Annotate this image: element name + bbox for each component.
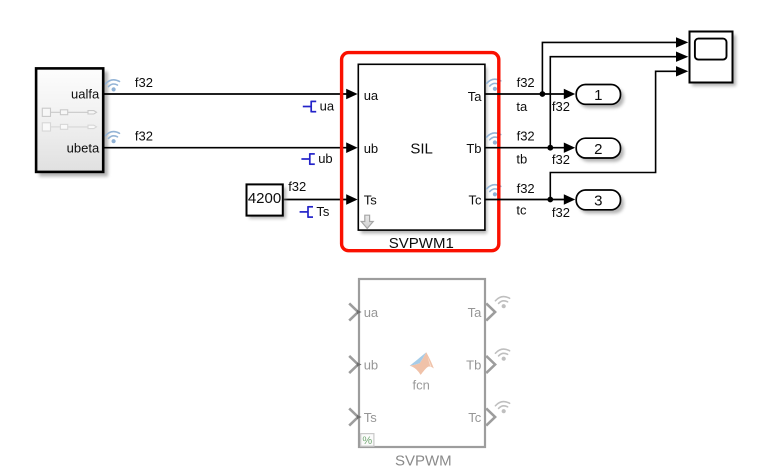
wire 4200 -> Ts: [284, 199, 347, 201]
junction dot ta: [540, 91, 546, 97]
arrowhead into scope 1: [676, 37, 688, 47]
faded input port chevron Ts: [349, 408, 358, 425]
MATLAB membrane logo (faded): [410, 352, 434, 375]
arrowhead into ua: [346, 89, 357, 100]
wire ualfa -> ua: [104, 93, 347, 95]
svg-text:ub: ub: [364, 141, 378, 156]
wire Ta -> outport 1: [486, 93, 565, 95]
faded input port chevron ub: [349, 356, 358, 373]
svg-text:f32: f32: [552, 152, 570, 167]
constant block 4200: [247, 184, 283, 215]
source block preview icons row 1: [42, 108, 96, 116]
outport 1: [576, 85, 620, 105]
svg-text:2: 2: [594, 141, 602, 158]
svg-text:Ts: Ts: [316, 204, 330, 219]
wire branch tb -> scope input 2: [550, 57, 676, 148]
svg-text:SIL: SIL: [410, 141, 433, 158]
arrowhead into scope 3: [676, 66, 688, 76]
svg-text:%: %: [362, 435, 372, 447]
svg-text:ta: ta: [516, 99, 528, 114]
junction dot tc: [547, 197, 553, 203]
svg-text:ubeta: ubeta: [67, 141, 100, 156]
test point ua: [303, 101, 316, 113]
arrowhead into ub: [346, 142, 357, 153]
svg-text:tc: tc: [516, 202, 527, 217]
faded input port chevron ua: [349, 303, 358, 320]
test point ub: [301, 153, 314, 165]
logging badge Tc: [486, 184, 502, 198]
junction dot tb: [547, 145, 553, 151]
svg-text:fcn: fcn: [413, 377, 430, 392]
logging badge ubeta: [105, 130, 121, 144]
source subsystem block shadow: [39, 72, 108, 177]
red SIL highlight border: [342, 53, 499, 251]
scope block: [690, 32, 733, 83]
faded output port chevron Tb: [486, 356, 495, 373]
source subsystem block (ualfa/ubeta): [36, 68, 103, 171]
svg-text:Ta: Ta: [468, 305, 483, 320]
scope block shadow: [692, 35, 736, 86]
arrowhead into outport 2: [564, 143, 575, 153]
svg-text:Ta: Ta: [468, 89, 483, 104]
svg-text:ua: ua: [320, 99, 335, 114]
arrowhead into outport 3: [564, 194, 575, 204]
svg-text:1: 1: [594, 87, 602, 104]
svg-text:ua: ua: [364, 305, 379, 320]
constant block 4200 shadow: [249, 188, 286, 219]
SIL download arrow icon: [361, 215, 373, 228]
svg-text:4200: 4200: [248, 190, 281, 207]
faded output port chevron Tc: [486, 408, 495, 425]
svg-text:Ts: Ts: [364, 193, 378, 208]
outport 1 shadow: [579, 88, 624, 108]
test point Ts: [300, 206, 313, 218]
svg-text:f32: f32: [288, 179, 306, 194]
svg-text:Tc: Tc: [469, 193, 483, 208]
wire Tc -> outport 3: [486, 199, 565, 201]
outport 2 shadow: [579, 142, 624, 162]
svg-text:ualfa: ualfa: [71, 86, 100, 101]
svg-text:f32: f32: [517, 75, 535, 90]
svg-text:ub: ub: [364, 358, 378, 373]
arrowhead into outport 1: [564, 89, 575, 99]
svg-text:Tb: Tb: [466, 141, 481, 156]
svg-text:ub: ub: [318, 151, 332, 166]
arrowhead into scope 2: [676, 52, 688, 62]
faded output port chevron Ta: [486, 303, 495, 320]
svg-text:f32: f32: [135, 129, 153, 144]
svg-text:f32: f32: [517, 129, 535, 144]
source block preview icons row 2: [42, 123, 96, 131]
svg-text:Tc: Tc: [468, 410, 482, 425]
svg-text:tb: tb: [516, 152, 527, 167]
svg-text:Ts: Ts: [364, 410, 378, 425]
faded logging badge Tb: [495, 348, 511, 362]
faded MATLAB function block SVPWM: [359, 279, 485, 447]
faded logging badge Tc: [495, 400, 511, 414]
arrowhead into Ts: [346, 194, 357, 205]
logging badge Tb: [486, 132, 502, 146]
MATLAB function block SVPWM1 shadow: [361, 68, 487, 234]
svg-text:f32: f32: [135, 75, 153, 90]
svg-text:Tb: Tb: [466, 358, 481, 373]
svg-text:3: 3: [594, 193, 602, 210]
faded logging badge Ta: [495, 295, 511, 309]
comment badge (%): [361, 434, 374, 447]
wire Tb -> outport 2: [486, 147, 565, 149]
outport 3 shadow: [579, 194, 624, 214]
logging badge Ta: [486, 78, 502, 92]
svg-text:ua: ua: [364, 88, 379, 103]
svg-text:f32: f32: [552, 99, 570, 114]
outport 3: [576, 190, 620, 210]
svg-text:SVPWM: SVPWM: [395, 453, 452, 470]
outport 2: [576, 138, 620, 158]
logging badge ualfa: [105, 79, 121, 93]
svg-text:f32: f32: [517, 181, 535, 196]
svg-text:f32: f32: [552, 205, 570, 220]
MATLAB function block SVPWM1 (SIL): [358, 64, 485, 230]
wire branch tc -> scope input 3: [550, 71, 676, 199]
wire branch ta -> scope input 1: [542, 42, 676, 94]
wire ubeta -> ub: [104, 147, 347, 149]
